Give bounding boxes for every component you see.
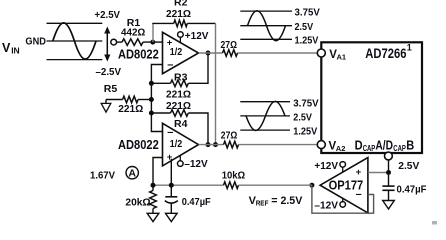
- label +12V (OP177): [314, 160, 338, 172]
- resistor R1 442ohm: [117, 17, 163, 45]
- svg-text:1.25V: 1.25V: [293, 125, 317, 137]
- svg-text:B: B: [406, 139, 414, 153]
- svg-text:1/2: 1/2: [170, 47, 183, 58]
- resistor 27ohm (top): [221, 40, 238, 56]
- resistor R3 221ohm feedback amp1: [151, 53, 208, 100]
- svg-text:–: –: [167, 59, 173, 71]
- svg-text:221Ω: 221Ω: [166, 8, 191, 20]
- node A junction 20k: [151, 183, 156, 188]
- svg-text:+2.5V: +2.5V: [95, 9, 121, 21]
- svg-text:IN: IN: [11, 46, 20, 56]
- op-amp U1b AD8022 1/2: [163, 123, 199, 166]
- svg-text:2.5V: 2.5V: [295, 21, 314, 33]
- ground for bias cap: [166, 213, 178, 221]
- terminal VA2 pin: [317, 141, 325, 149]
- wire OP177 +input to DCAP node: [368, 172, 389, 174]
- wire amp2 output to VA2: [199, 144, 318, 146]
- label 2.5V (wf1): [295, 21, 314, 33]
- svg-text:2.5V: 2.5V: [398, 160, 419, 172]
- label 1.67V: [90, 170, 115, 182]
- terminal -12V supply (amp2): [178, 156, 184, 167]
- svg-text:–: –: [167, 127, 173, 139]
- resistor R5 221ohm to ground: [104, 83, 152, 115]
- svg-text:0.47µF: 0.47µF: [397, 183, 428, 195]
- svg-text:OP177: OP177: [329, 179, 364, 193]
- resistor 27ohm (bottom): [221, 131, 239, 148]
- terminal VIN input: [111, 39, 117, 45]
- svg-text:3.75V: 3.75V: [293, 97, 318, 109]
- resistor R2 221ohm feedback loop: [152, 0, 215, 42]
- label AD8022 (amp2): [118, 138, 159, 152]
- resistor R4 221ohm feedback amp2: [151, 100, 208, 145]
- wire DCAP pin down to decoupling cap: [388, 160, 390, 186]
- svg-text:D: D: [355, 139, 363, 153]
- terminal VA1 pin: [317, 49, 325, 57]
- node amp1 output: [206, 51, 211, 56]
- pin label DCAPA/DCAPB: [355, 139, 415, 154]
- resistor 20kohm bias: [125, 185, 156, 213]
- terminal +12V supply (OP177): [340, 162, 346, 173]
- svg-text:1: 1: [407, 42, 412, 52]
- svg-text:2.5V: 2.5V: [293, 112, 312, 124]
- svg-text:AD7266: AD7266: [365, 45, 406, 61]
- svg-text:27Ω: 27Ω: [221, 40, 238, 51]
- label VREF = 2.5V: [249, 195, 303, 208]
- node A junction cap: [169, 183, 174, 188]
- op-amp U1a AD8022 1/2: [163, 32, 199, 73]
- svg-text:+12V: +12V: [314, 160, 338, 172]
- svg-text:442Ω: 442Ω: [121, 27, 145, 39]
- wire OP177 feedback loop: [312, 185, 374, 213]
- svg-text:–2.5V: –2.5V: [96, 66, 122, 78]
- capacitor 0.47uF decoupling: [382, 183, 427, 200]
- ground for decoupling cap: [383, 201, 395, 210]
- pin label VA2: [329, 140, 346, 153]
- svg-text:10kΩ: 10kΩ: [222, 170, 246, 182]
- label GND: [25, 37, 46, 48]
- node amp2 output: [206, 142, 211, 147]
- label -12V (amp2): [184, 159, 208, 170]
- terminal +12V supply (amp1): [178, 32, 184, 44]
- wire bias node A line: [153, 158, 224, 197]
- op-amp U2 OP177 buffer: [320, 158, 368, 213]
- svg-text:R3: R3: [174, 71, 188, 83]
- svg-text:REF: REF: [256, 198, 269, 207]
- svg-text:1.25V: 1.25V: [295, 35, 319, 47]
- svg-text:+: +: [356, 167, 362, 178]
- svg-text:–12V: –12V: [314, 200, 338, 212]
- svg-text:A: A: [128, 168, 136, 180]
- node R2 to amp2 output: [213, 142, 218, 147]
- svg-text:AD8022: AD8022: [118, 138, 159, 152]
- svg-text:GND: GND: [25, 37, 46, 48]
- label 1.25V (wf2): [293, 125, 317, 137]
- wire amp1 output to VA1: [199, 52, 318, 54]
- ground for R5: [101, 103, 111, 112]
- svg-text:R5: R5: [104, 83, 118, 95]
- label -12V (OP177): [314, 200, 338, 212]
- label AD8022 (amp1): [118, 48, 159, 62]
- svg-text:AD8022: AD8022: [118, 48, 159, 62]
- arrow span indicator: [104, 27, 110, 62]
- svg-text:20kΩ: 20kΩ: [125, 197, 150, 209]
- node R3 tap: [149, 81, 154, 86]
- svg-text:1/2: 1/2: [170, 139, 183, 150]
- label 2.5V (wf2): [293, 112, 312, 124]
- svg-text:27Ω: 27Ω: [221, 131, 238, 142]
- label 2.5V (DCAP): [398, 160, 419, 172]
- svg-text:+12V: +12V: [185, 31, 209, 42]
- label -2.5V: [96, 66, 122, 78]
- node R1/R2/amp1 + input: [150, 40, 155, 45]
- resistor 10kohm from buffer: [222, 170, 246, 189]
- IC AD7266 ADC block: [321, 42, 422, 153]
- source VIN sine generator: [47, 23, 103, 60]
- svg-text:CAP: CAP: [363, 144, 376, 153]
- wire 10k to OP177 output: [239, 184, 312, 186]
- label 3.75V (wf1): [295, 7, 320, 19]
- svg-text:A2: A2: [336, 144, 346, 153]
- capacitor 0.47uF bias: [165, 196, 211, 213]
- terminal DCAPA/DCAPB pin: [385, 152, 393, 160]
- svg-text:CAP: CAP: [393, 144, 406, 153]
- node R4 tap: [149, 111, 154, 116]
- svg-text:221Ω: 221Ω: [166, 100, 191, 112]
- node marker circled A: [126, 167, 138, 180]
- label 3.75V (wf2): [293, 97, 318, 109]
- svg-text:1.67V: 1.67V: [90, 170, 115, 182]
- svg-text:–12V: –12V: [184, 159, 208, 170]
- svg-text:221Ω: 221Ω: [118, 103, 143, 115]
- svg-text:A1: A1: [337, 53, 347, 62]
- wire R2 right side down to amp2 output: [215, 23, 217, 144]
- label +12V (amp1): [185, 31, 209, 42]
- wire amp1 inverting input net: [151, 65, 162, 132]
- node OP177 output: [309, 183, 314, 188]
- svg-text:A/D: A/D: [375, 139, 393, 153]
- svg-text:3.75V: 3.75V: [295, 7, 320, 19]
- svg-text:V: V: [2, 41, 11, 55]
- label 1.25V (wf1): [295, 35, 319, 47]
- svg-text:221Ω: 221Ω: [166, 88, 191, 100]
- svg-text:R4: R4: [174, 118, 188, 130]
- figure corner mark: [432, 221, 437, 225]
- svg-text:= 2.5V: = 2.5V: [271, 195, 303, 207]
- terminal -12V supply (OP177): [340, 198, 346, 207]
- pin label VA1: [329, 49, 346, 62]
- svg-text:0.47µF: 0.47µF: [182, 196, 212, 208]
- node R5 tap: [149, 97, 154, 102]
- ground for 20kohm: [147, 213, 159, 221]
- label +2.5V: [95, 9, 121, 21]
- waveform VA1 output swing: [240, 11, 292, 41]
- node DCAP/buffer input: [386, 170, 391, 175]
- label VIN: [2, 41, 20, 56]
- waveform VA2 output swing: [240, 101, 290, 130]
